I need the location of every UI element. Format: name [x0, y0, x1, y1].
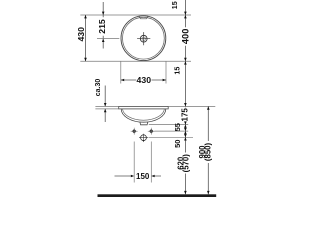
center tick for 215 — [97, 38, 119, 40]
rim extension lines right — [168, 105, 215, 107]
dimension column right 2: 900(850) — [198, 106, 212, 194]
svg-text:15: 15 — [173, 67, 182, 75]
centerline arrow below faucet — [143, 140, 145, 142]
fixing hole right (diamond) — [148, 128, 155, 135]
drain outlet — [140, 122, 148, 125]
leader from faucet center — [149, 136, 193, 138]
leader from fixing holes — [155, 130, 189, 132]
svg-text:430: 430 — [137, 75, 152, 85]
dimension ca.30 — [95, 79, 106, 122]
dimension column right: 15 / 400 / 15 — [170, 0, 190, 107]
svg-text:ca.30: ca.30 — [95, 79, 102, 97]
svg-text:(570): (570) — [182, 154, 191, 173]
bowl inner profile — [123, 109, 165, 120]
dimension 430 (left vertical) — [76, 15, 87, 61]
dimension 430 (bottom horizontal) — [121, 61, 166, 85]
svg-text:430: 430 — [76, 27, 86, 42]
bowl outer profile — [121, 109, 166, 122]
svg-text:400: 400 — [181, 29, 191, 45]
dimension 215 (left inner vertical) — [97, 2, 119, 49]
svg-text:175: 175 — [181, 108, 190, 122]
floor line — [98, 194, 217, 197]
rim extension lines left — [95, 106, 118, 109]
extension line top (y=15) — [80, 14, 191, 16]
leader from drain bottom — [149, 124, 188, 126]
basin inner rim circle — [122, 17, 164, 59]
overflow notch — [139, 16, 148, 19]
svg-text:55: 55 — [173, 123, 182, 131]
svg-text:50: 50 — [173, 140, 182, 148]
basin outer circle — [121, 16, 166, 61]
svg-text:150: 150 — [136, 172, 150, 181]
dimension column right 1: 175 / 55 / 50 / 620(570) — [173, 103, 191, 194]
faucet hole symbol (plan) — [137, 32, 150, 45]
svg-text:215: 215 — [97, 19, 107, 34]
extension line bottom (y=61.2) — [80, 60, 191, 62]
svg-text:15: 15 — [170, 1, 179, 9]
fixing hole left (diamond) — [131, 128, 138, 135]
faucet hole symbol (elevation) — [139, 134, 148, 141]
svg-text:(850): (850) — [204, 142, 213, 161]
rim band — [119, 106, 169, 109]
dimension 150 — [115, 142, 162, 183]
